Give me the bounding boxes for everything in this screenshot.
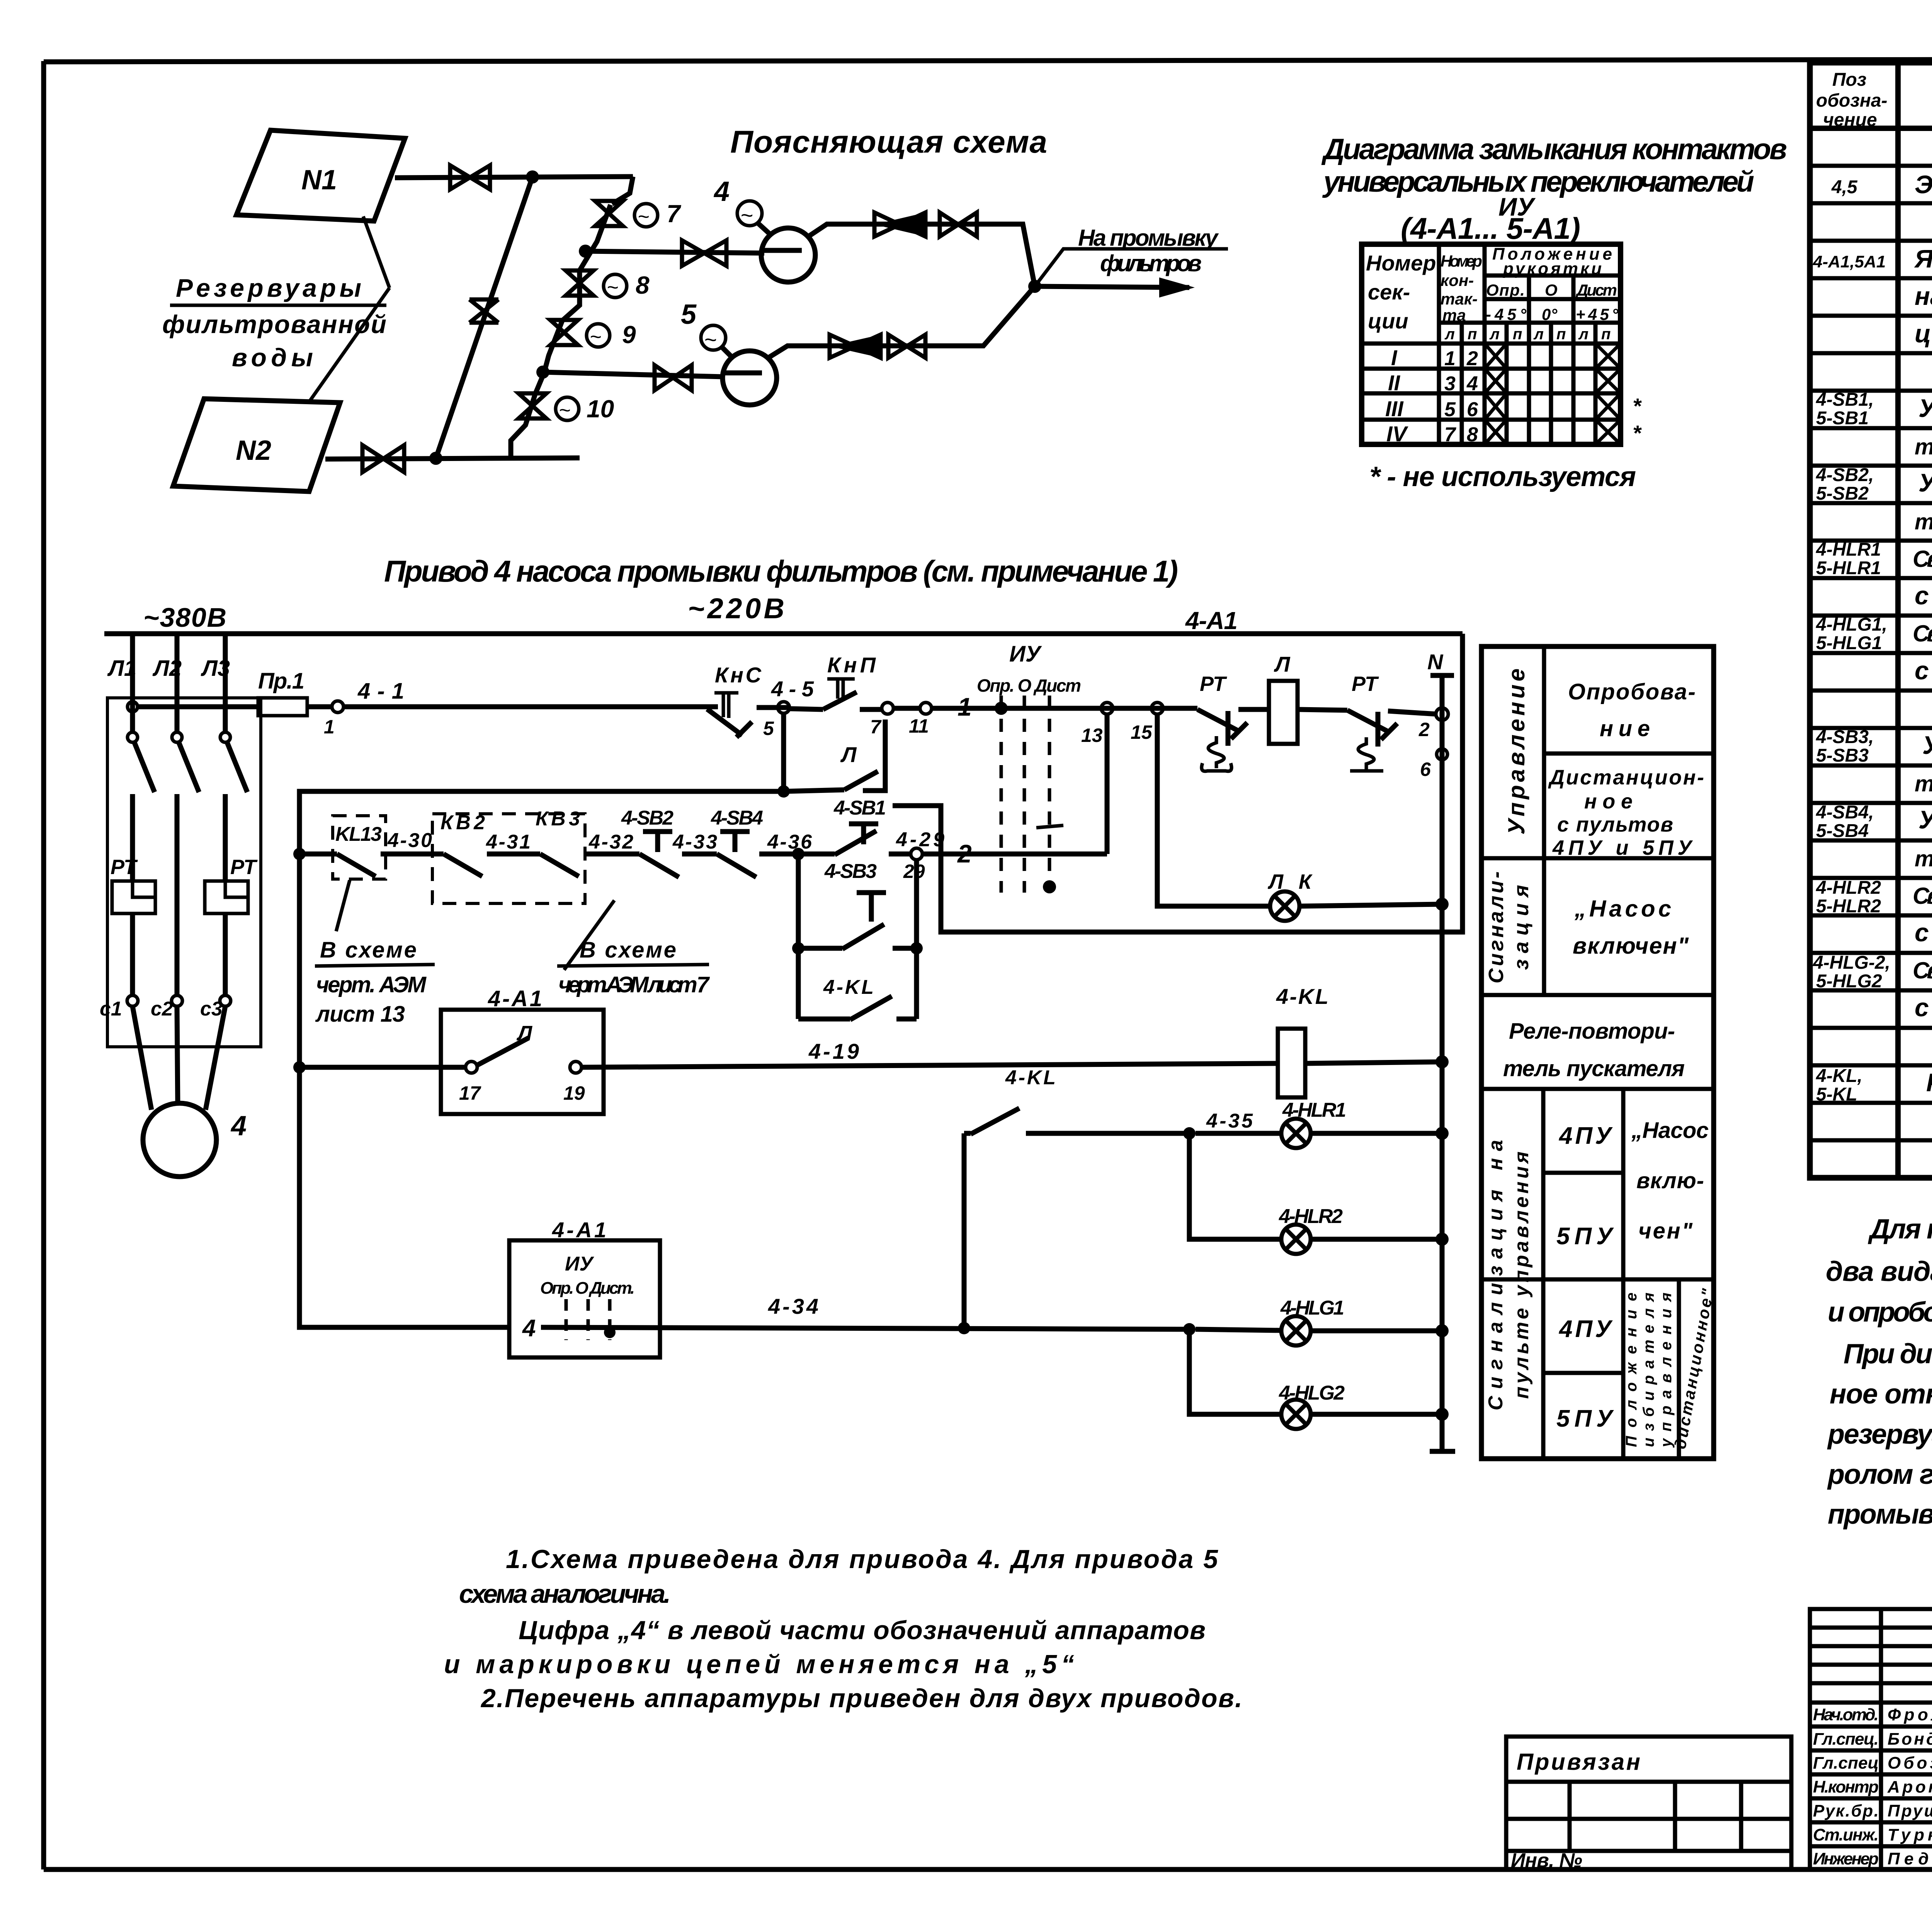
svg-text:0°: 0° <box>1542 305 1558 323</box>
svg-text:III: III <box>1385 396 1404 421</box>
button KnP <box>789 653 882 709</box>
universal switch IU <box>977 641 1081 893</box>
motor terminal c1 <box>100 995 138 1020</box>
contact diagram row IV <box>1386 420 1642 446</box>
svg-text:воды: воды <box>232 343 313 372</box>
svg-text:Л: Л <box>840 742 857 767</box>
node coil-N <box>1435 1055 1449 1068</box>
svg-text:РТ: РТ <box>1352 672 1379 696</box>
wire 4-34 <box>541 1294 1184 1329</box>
svg-text:4-SB1: 4-SB1 <box>833 797 886 819</box>
title block signature table <box>1810 1609 1932 1869</box>
wire 4-19 to coil 4-KL <box>582 1039 1278 1067</box>
svg-text:4-KL,: 4-KL, <box>1816 1066 1862 1086</box>
svg-text:5: 5 <box>763 718 774 739</box>
svg-text:Дистанцион-: Дистанцион- <box>1548 766 1704 789</box>
node on N2 line <box>429 452 442 465</box>
svg-text:л: л <box>1489 326 1500 343</box>
contact diagram table grid <box>1362 244 1621 444</box>
cross wire N1-N2 with valve <box>436 177 532 458</box>
svg-text:Положение: Положение <box>1623 1293 1640 1447</box>
thermal contact RT 2 <box>1298 672 1437 771</box>
svg-text:4ПУ: 4ПУ <box>1558 1123 1613 1149</box>
terminal 2 <box>1418 708 1448 740</box>
svg-text:4-SB4,: 4-SB4, <box>1816 802 1874 823</box>
valve pump5 inlet <box>655 365 692 390</box>
svg-text:толкателем красного цвета с са: толкателем красного цвета с самовозврато… <box>1915 509 1932 534</box>
label На промывку фильтров <box>1035 225 1228 286</box>
svg-text:с1: с1 <box>100 998 122 1020</box>
wire to pump 4 <box>585 251 764 253</box>
cell Nasos vklyuchen right <box>1631 1118 1709 1243</box>
svg-text:Электродвигатель 4А280S6У3: Электродвигатель 4А280S6У3 <box>1915 170 1932 199</box>
svg-text:Ящик управления ЯУ5141-33А2В: Ящик управления ЯУ5141-33А2В <box>1914 244 1932 273</box>
svg-text:сек-: сек- <box>1368 280 1410 304</box>
svg-text:Управляющий элемент КУ с цилин: Управляющий элемент КУ с цилиндрическим <box>1918 805 1932 834</box>
svg-text:IV: IV <box>1386 422 1409 446</box>
svg-text:5-HLG1: 5-HLG1 <box>1816 633 1882 653</box>
svg-text:Гл.спец.: Гл.спец. <box>1813 1730 1879 1749</box>
wire coil to N <box>1305 1062 1442 1063</box>
parts rows names <box>1913 133 1932 1134</box>
svg-text:ное отключение насосов при: ное отключение насосов при минимальном у… <box>1830 1379 1932 1410</box>
svg-text:4-HLR2: 4-HLR2 <box>1816 878 1881 898</box>
svg-text:5-SB4: 5-SB4 <box>1816 821 1869 841</box>
svg-text:4: 4 <box>230 1111 247 1141</box>
svg-text:„Насос: „Насос <box>1631 1118 1709 1143</box>
svg-text:Дист: Дист <box>1575 281 1617 299</box>
svg-text:Обозная: Обозная <box>1888 1754 1932 1772</box>
node on N1 line <box>526 170 539 184</box>
svg-text:4-HLR2: 4-HLR2 <box>1279 1205 1343 1228</box>
svg-text:толкателем черного цвета с сам: толкателем черного цвета с самовозвратом… <box>1915 434 1932 459</box>
valve pump5 discharge <box>888 335 925 358</box>
svg-text:Н.контр: Н.контр <box>1813 1778 1879 1796</box>
svg-text:7: 7 <box>667 200 682 228</box>
parts list table grid <box>1810 63 1932 1178</box>
svg-text:* - не используется: * - не используется <box>1369 461 1636 492</box>
box 4-A1 aux contact <box>441 986 604 1114</box>
svg-text:4ПУ: 4ПУ <box>1558 1316 1613 1342</box>
svg-text:5-KL: 5-KL <box>1816 1084 1857 1105</box>
svg-text:л: л <box>1444 326 1455 343</box>
terminal 11 <box>893 703 932 737</box>
contactor pole L3 <box>220 732 247 792</box>
svg-text:Инв. №: Инв. № <box>1511 1849 1582 1872</box>
svg-text:5-SB1: 5-SB1 <box>1816 408 1869 429</box>
lamp LK <box>1267 870 1313 921</box>
svg-text:Инженер: Инженер <box>1813 1849 1879 1868</box>
svg-text:4-SB4: 4-SB4 <box>711 807 763 829</box>
wire to pump 5 <box>543 372 723 377</box>
svg-text:10: 10 <box>587 395 614 423</box>
svg-text:рукоятки: рукоятки <box>1503 259 1602 278</box>
svg-text:с2: с2 <box>151 998 173 1020</box>
wire from N1 <box>395 177 633 178</box>
svg-text:и опробование с ящиков упра: и опробование с ящиков управления ЯУ 4, … <box>1828 1297 1932 1328</box>
node LK-N <box>1435 898 1449 911</box>
node 4-19 left <box>293 1061 306 1073</box>
svg-text:29: 29 <box>903 861 925 882</box>
svg-text:4-SB1,: 4-SB1, <box>1816 390 1874 410</box>
svg-text:4-А1,5А1: 4-А1,5А1 <box>1813 252 1886 271</box>
lamp 4-HLR2 <box>1189 1133 1449 1254</box>
svg-text:4-KL: 4-KL <box>1276 984 1328 1009</box>
svg-text:включен": включен" <box>1573 933 1689 959</box>
svg-text:19: 19 <box>563 1082 585 1104</box>
svg-text:4-19: 4-19 <box>808 1039 859 1063</box>
svg-text:2: 2 <box>1418 719 1430 740</box>
svg-text:KL13: KL13 <box>335 823 382 845</box>
wire fuse to terminal <box>307 704 332 709</box>
svg-text:1: 1 <box>324 716 335 738</box>
svg-text:Ст.инж.: Ст.инж. <box>1813 1825 1879 1844</box>
button 4-SB4 <box>711 807 798 877</box>
holding branch from terminal 5 <box>781 713 786 791</box>
button 4-SB2 <box>621 807 717 877</box>
svg-text:и маркировки цепей меняется: и маркировки цепей меняется на „5“ <box>444 1650 1074 1679</box>
svg-text:РТ: РТ <box>230 856 258 879</box>
svg-text:15: 15 <box>1131 721 1153 743</box>
svg-text:с зеленым светофильтром ~220В: с зеленым светофильтром ~220В <box>1915 656 1932 685</box>
svg-text:п: п <box>1513 326 1522 343</box>
terminal 7 <box>870 703 893 738</box>
svg-text:3: 3 <box>1444 373 1456 395</box>
signature rows <box>1813 1705 1932 1868</box>
thermal contact RT 1 <box>1197 672 1269 771</box>
svg-text:II: II <box>1388 371 1401 395</box>
svg-text:так-: так- <box>1440 290 1478 308</box>
svg-text:~: ~ <box>590 326 601 348</box>
motor valve 10 <box>519 393 614 423</box>
function column table grid <box>1481 646 1714 1459</box>
contact diagram row III <box>1385 393 1642 421</box>
svg-text:КВ3: КВ3 <box>536 808 580 830</box>
contacts KV2 KV3 <box>432 808 639 903</box>
svg-text:обозна-: обозна- <box>1816 90 1888 111</box>
svg-text:Поясняющая схема: Поясняющая схема <box>730 124 1047 160</box>
cabinet box <box>107 698 261 1047</box>
svg-text:4-31: 4-31 <box>486 831 531 853</box>
pump 5 <box>723 351 777 405</box>
svg-text:4-А1: 4-А1 <box>1185 607 1238 634</box>
tank N1 <box>236 130 405 221</box>
svg-text:Светосигнальная арматура с тра: Светосигнальная арматура с трансформатор… <box>1913 958 1932 983</box>
svg-text:с красным светофильтром, ~220В: с красным светофильтром, ~220В <box>1915 918 1932 947</box>
svg-text:(4-А1... 5-А1): (4-А1... 5-А1) <box>1401 211 1580 245</box>
contact L self-hold <box>784 720 885 791</box>
wire 15 to RT1 <box>1163 706 1197 711</box>
svg-text:чение: чение <box>1823 110 1877 130</box>
contact closure diagram title <box>1321 133 1787 245</box>
svg-text:4-HLG-2,: 4-HLG-2, <box>1813 953 1890 973</box>
svg-text:черт.АЭМ лист 7: черт.АЭМ лист 7 <box>558 972 710 997</box>
motor valve 7 <box>595 200 682 228</box>
svg-text:Нач.отд.: Нач.отд. <box>1813 1705 1879 1724</box>
column label Signalizacija na pulte <box>1485 1140 1533 1410</box>
svg-text:При дистанционном управлении: При дистанционном управлении предусматри… <box>1844 1339 1932 1369</box>
svg-text:*: * <box>1633 421 1642 445</box>
contact diagram row I <box>1391 344 1621 370</box>
svg-text:фильтрованной: фильтрованной <box>162 310 386 338</box>
svg-text:4-35: 4-35 <box>1206 1110 1253 1132</box>
node SB1 branch <box>792 848 804 860</box>
contactor pole L2 <box>172 732 199 792</box>
svg-text:кон-: кон- <box>1440 271 1474 289</box>
svg-text:Поз: Поз <box>1832 70 1866 90</box>
svg-text:4: 4 <box>713 176 730 207</box>
valve pump4 discharge <box>940 213 977 236</box>
svg-text:Номер: Номер <box>1366 251 1436 275</box>
svg-text:Управляющий элемент КУ с цилин: Управляющий элемент КУ с цилиндрическим <box>1918 394 1932 422</box>
svg-text:2: 2 <box>1466 347 1478 370</box>
wire holding branch to left rail <box>299 791 784 1327</box>
check valve pump4 <box>874 213 925 236</box>
button KnS <box>707 663 762 737</box>
svg-text:Номер: Номер <box>1440 252 1482 270</box>
terminal 13 <box>1081 703 1113 746</box>
svg-text:Диаграмма замыкания контактов: Диаграмма замыкания контактов <box>1321 133 1787 166</box>
svg-text:N1: N1 <box>301 165 337 196</box>
svg-text:Опр.: Опр. <box>1486 281 1525 299</box>
svg-text:КВ2: КВ2 <box>440 811 485 834</box>
node HLG1 <box>1183 1323 1196 1335</box>
svg-text:КнП: КнП <box>827 653 876 677</box>
svg-text:N: N <box>1427 650 1444 674</box>
svg-text:*: * <box>1633 394 1642 418</box>
valve on N2 line <box>362 445 404 472</box>
control wire to fuse <box>138 704 258 709</box>
svg-text:лист 13: лист 13 <box>315 1002 405 1027</box>
svg-text:На промывку: На промывку <box>1078 225 1219 251</box>
svg-text:с зеленым светофильтром, ~220В: с зеленым светофильтром, ~220В <box>1915 993 1932 1022</box>
svg-text:5ПУ: 5ПУ <box>1556 1405 1614 1432</box>
supply bus ~220V / box 4-A1 top <box>104 631 1463 636</box>
svg-text:1: 1 <box>957 692 972 721</box>
svg-text:резервуарах фильтрованной во: резервуарах фильтрованной воды и наполне… <box>1827 1419 1932 1450</box>
svg-text:5: 5 <box>1444 398 1456 421</box>
svg-text:Резервуары: Резервуары <box>176 274 361 302</box>
cell Nasos vklyuchen <box>1573 896 1689 959</box>
box 4-A1 outline <box>893 634 1463 932</box>
svg-text:4ПУ и 5ПУ: 4ПУ и 5ПУ <box>1552 836 1693 859</box>
svg-text:В схеме: В схеме <box>320 937 417 963</box>
svg-text:Реле-повтори-: Реле-повтори- <box>1509 1019 1675 1044</box>
column label Signalizacija <box>1485 871 1533 983</box>
node pump4 feed <box>579 245 592 258</box>
sheet frame left border <box>41 61 46 1869</box>
lamp 4-HLR1 <box>1196 1099 1449 1148</box>
wire 4-19 left <box>299 1065 466 1070</box>
wire KnS to terminal 5 <box>757 705 789 710</box>
svg-text:4-HLR1: 4-HLR1 <box>1816 539 1881 560</box>
svg-text:~: ~ <box>638 206 649 228</box>
svg-text:Прушкова: Прушкова <box>1888 1801 1932 1820</box>
svg-text:РТ: РТ <box>111 856 138 879</box>
valve on N1 line <box>450 165 490 189</box>
svg-text:7: 7 <box>870 716 882 738</box>
motor M4 <box>133 1006 247 1177</box>
parts rows column 1 designators <box>1813 177 1890 1105</box>
svg-text:та: та <box>1442 306 1466 324</box>
motor terminal c3 <box>200 995 231 1020</box>
wire 15 down to LK <box>1157 714 1270 906</box>
contact diagram header texts <box>1366 245 1619 343</box>
svg-text:напряжение главной цепи-380В,: напряжение главной цепи-380В, <box>1915 282 1932 310</box>
svg-text:5: 5 <box>681 299 697 330</box>
motor terminal c2 <box>151 995 182 1020</box>
phase wire L1 <box>107 634 136 995</box>
svg-text:Гл.спец: Гл.спец <box>1813 1754 1879 1772</box>
svg-text:Сигнализация на: Сигнализация на <box>1485 1140 1507 1410</box>
svg-text:1.Схема приведена для привода: 1.Схема приведена для привода 4. Для при… <box>506 1544 1218 1574</box>
lamp 4-HLG2 <box>1189 1329 1449 1429</box>
svg-text:7: 7 <box>1444 424 1456 446</box>
svg-text:4-33: 4-33 <box>672 831 717 853</box>
svg-text:8: 8 <box>636 271 650 299</box>
svg-text:л: л <box>1578 326 1588 343</box>
svg-text:толкателем красного цвета с са: толкателем красного цвета с самовозврато… <box>1915 846 1932 871</box>
svg-text:4-1: 4-1 <box>357 679 404 704</box>
svg-text:13: 13 <box>1081 725 1103 746</box>
svg-text:4-А1: 4-А1 <box>488 986 542 1011</box>
svg-text:4-KL: 4-KL <box>1005 1067 1056 1089</box>
svg-text:6: 6 <box>1467 398 1478 421</box>
motor valve 8 <box>566 270 650 299</box>
button 4-SB3 branch <box>792 854 923 954</box>
svg-text:6: 6 <box>1420 759 1431 780</box>
svg-text:4: 4 <box>522 1315 536 1342</box>
node 4-KL branch joins 4-34 <box>958 1322 970 1334</box>
svg-text:два вида управления: дистан: два вида управления: дистанционное с пул… <box>1826 1256 1932 1287</box>
svg-text:вклю-: вклю- <box>1636 1168 1704 1193</box>
svg-text:5-SB2: 5-SB2 <box>1816 483 1869 504</box>
svg-text:5-HLR2: 5-HLR2 <box>1816 896 1881 917</box>
svg-text:промывной воды.: промывной воды. <box>1828 1499 1932 1530</box>
svg-text:Реле РПУ2-36440У3Б, ~220В, 50Г: Реле РПУ2-36440У3Б, ~220В, 50Гц, <box>1926 1068 1932 1097</box>
sheet frame bottom border <box>44 1867 1932 1872</box>
contactor pole L1 <box>128 732 155 792</box>
svg-text:4-SB3: 4-SB3 <box>824 860 877 883</box>
cell Rele povtoritel <box>1503 1019 1685 1081</box>
svg-text:цепей управления 220В: цепей управления 220В <box>1915 319 1932 348</box>
pump 4 discharge wire <box>808 224 1035 286</box>
svg-text:универсальных переключателей: универсальных переключателей <box>1322 165 1754 198</box>
svg-text:5-HLR1: 5-HLR1 <box>1816 558 1881 578</box>
thermal relay RT heater 1 <box>111 856 155 913</box>
svg-text:11: 11 <box>909 715 929 737</box>
svg-text:1: 1 <box>1444 347 1456 370</box>
right text paragraphs <box>1826 1214 1932 1530</box>
svg-text:4-36: 4-36 <box>767 831 812 853</box>
svg-text:Опр. О Дист.: Опр. О Дист. <box>540 1279 635 1298</box>
header wire to valve chain <box>612 177 633 204</box>
svg-text:Опробова-: Опробова- <box>1568 679 1696 704</box>
pump 4 motor <box>713 176 771 235</box>
svg-text:п: п <box>1556 326 1566 343</box>
svg-text:4-SB2,: 4-SB2, <box>1816 465 1874 485</box>
svg-text:фильтров: фильтров <box>1100 250 1202 276</box>
terminal 4-1 <box>324 679 404 738</box>
svg-text:4,5: 4,5 <box>1831 177 1858 197</box>
node discharge header <box>1028 280 1041 293</box>
contact KL13 <box>299 816 444 879</box>
terminal 29 <box>896 828 944 882</box>
pump 5 motor <box>681 299 731 356</box>
thermal relay RT heater 2 <box>205 856 258 913</box>
node pump5 feed <box>536 366 549 379</box>
pump 5 discharge wire <box>768 286 1035 358</box>
wire node 1 <box>932 692 1194 721</box>
terminal 6 <box>1420 749 1447 780</box>
svg-text:В схеме: В схеме <box>580 937 676 963</box>
pump 4 <box>761 228 815 282</box>
svg-text:Для насосов промывки фильтро: Для насосов промывки фильтров предусматр… <box>1867 1214 1932 1245</box>
coil L (contactor) <box>1269 652 1298 744</box>
svg-text:ИУ: ИУ <box>565 1253 594 1275</box>
tank N2 <box>173 399 340 492</box>
svg-text:ролом гидроуловителя на тру: ролом гидроуловителя на трубопроводе отв… <box>1827 1459 1932 1490</box>
wire row2 to IU <box>922 714 1107 868</box>
svg-text:тель пускателя: тель пускателя <box>1503 1056 1685 1081</box>
svg-text:2.Перечень аппаратуры привед: 2.Перечень аппаратуры приведен для двух … <box>480 1684 1242 1713</box>
title block privjazan table <box>1506 1737 1791 1872</box>
control tap on L1 <box>128 702 138 712</box>
svg-text:5-HLG2: 5-HLG2 <box>1816 971 1882 992</box>
contact diagram row II <box>1388 369 1621 395</box>
svg-text:4-34: 4-34 <box>768 1294 818 1318</box>
svg-text:Светосигнальная арматура с тра: Светосигнальная арматура с трансформатор… <box>1913 546 1932 572</box>
svg-text:~: ~ <box>740 203 753 227</box>
terminal 15 <box>1131 703 1163 743</box>
svg-text:4: 4 <box>1466 373 1478 395</box>
check valve pump5 <box>830 335 881 358</box>
svg-text:~: ~ <box>559 399 570 422</box>
svg-text:~: ~ <box>704 327 717 352</box>
sheet frame top border <box>44 59 1932 62</box>
phase wire L2 <box>152 634 182 995</box>
svg-text:Л: Л <box>1274 652 1291 676</box>
svg-text:п: п <box>1601 326 1611 343</box>
coil 4-KL <box>1276 984 1328 1097</box>
svg-text:Аронсон: Аронсон <box>1887 1778 1932 1796</box>
svg-text:N2: N2 <box>236 435 271 466</box>
notes bottom left <box>444 1544 1242 1713</box>
svg-text:4-SB2: 4-SB2 <box>621 807 673 829</box>
svg-text:I: I <box>1391 345 1398 370</box>
svg-text:КнС: КнС <box>715 663 762 687</box>
button 4-SB1 <box>798 797 911 855</box>
svg-text:4-5: 4-5 <box>771 677 814 701</box>
svg-text:пульте управления: пульте управления <box>1510 1152 1533 1399</box>
valve pump4 inlet <box>682 240 726 266</box>
contact 4-KL branch <box>798 948 917 1020</box>
svg-text:4-SB3,: 4-SB3, <box>1816 727 1874 747</box>
wire LK to N <box>1299 904 1442 906</box>
wire from N2 <box>325 458 580 459</box>
svg-text:схема аналогична.: схема аналогична. <box>459 1579 671 1609</box>
wire 4-1 to KnS <box>344 704 718 709</box>
svg-text:Опр. О Дист: Опр. О Дист <box>977 675 1081 696</box>
svg-text:Привод 4 насоса промывки фи: Привод 4 насоса промывки фильтров (см. п… <box>384 554 1178 588</box>
svg-text:~: ~ <box>607 276 618 299</box>
cell Polozhenie izbiratelja <box>1623 1287 1717 1451</box>
note V scheme sheet 13 <box>315 880 435 1027</box>
svg-text:4-KL: 4-KL <box>823 976 874 998</box>
svg-text:толкателем черного цвета с сам: толкателем черного цвета с самовозвратом… <box>1915 771 1932 796</box>
selector box 4-A1 lower <box>509 1218 660 1357</box>
svg-text:~220В: ~220В <box>688 592 784 624</box>
